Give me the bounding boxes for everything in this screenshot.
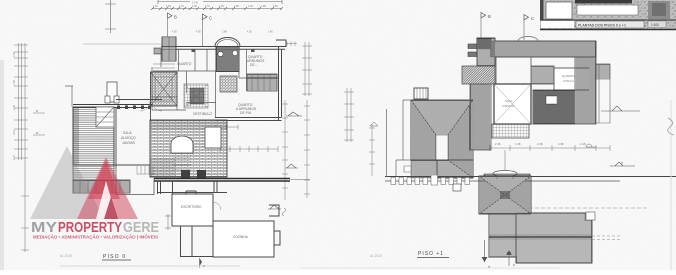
svg-text:1:100: 1:100 xyxy=(651,23,659,27)
svg-text:d: d xyxy=(621,161,623,165)
svg-text:3.50x4.0: 3.50x4.0 xyxy=(563,79,574,83)
svg-text:B: B xyxy=(36,109,38,113)
svg-text:1.80: 1.80 xyxy=(12,79,16,85)
svg-text:2.48: 2.48 xyxy=(580,142,586,146)
svg-text:B: B xyxy=(36,131,38,135)
svg-text:2.98: 2.98 xyxy=(234,5,239,8)
svg-text:PROPERTY: PROPERTY xyxy=(58,219,122,236)
svg-text:B: B xyxy=(488,14,491,19)
svg-text:MEDIAÇÃO • ADMINISTRAÇÃO • VAL: MEDIAÇÃO • ADMINISTRAÇÃO • VALORIZAÇÃO |… xyxy=(33,235,158,240)
svg-text:1.35: 1.35 xyxy=(273,5,278,8)
svg-text:QUARTO: QUARTO xyxy=(562,74,575,78)
svg-text:4.50x6.00: 4.50x6.00 xyxy=(502,104,515,108)
svg-text:VESTIBULO: VESTIBULO xyxy=(193,112,212,116)
svg-text:1.35: 1.35 xyxy=(166,5,171,8)
svg-text:4.30: 4.30 xyxy=(247,31,252,34)
svg-text:4.50: 4.50 xyxy=(172,31,177,34)
svg-text:2.95: 2.95 xyxy=(12,51,16,57)
svg-text:COZINHA: COZINHA xyxy=(233,235,249,239)
svg-text:2.98: 2.98 xyxy=(222,31,227,34)
svg-text:1.70: 1.70 xyxy=(205,5,210,8)
svg-text:C: C xyxy=(209,16,212,21)
svg-text:1.35: 1.35 xyxy=(192,5,197,8)
svg-text:4.50: 4.50 xyxy=(196,31,201,34)
svg-text:PISO 0: PISO 0 xyxy=(103,254,126,260)
svg-text:B: B xyxy=(174,15,177,20)
svg-text:ALMOÇO: ALMOÇO xyxy=(121,136,136,140)
svg-text:AL 2015: AL 2015 xyxy=(60,254,72,258)
svg-text:QUARTO: QUARTO xyxy=(177,62,192,66)
svg-text:2.98: 2.98 xyxy=(558,142,564,146)
svg-text:ESCRITORIO: ESCRITORIO xyxy=(181,205,202,209)
svg-text:1.35: 1.35 xyxy=(219,5,224,8)
svg-text:DE…: DE… xyxy=(250,63,258,67)
svg-text:DE PIA: DE PIA xyxy=(240,111,252,115)
svg-text:1.70: 1.70 xyxy=(179,5,184,8)
svg-text:2.70: 2.70 xyxy=(12,154,16,160)
svg-text:AL 2015: AL 2015 xyxy=(370,254,382,258)
svg-text:2.38: 2.38 xyxy=(495,142,501,146)
svg-text:MY: MY xyxy=(31,219,57,236)
svg-text:1.98: 1.98 xyxy=(261,5,266,8)
svg-text:PLANTAS DOS PISOS 0 e +1: PLANTAS DOS PISOS 0 e +1 xyxy=(578,24,626,28)
svg-text:SALA: SALA xyxy=(123,131,132,135)
svg-text:SALA: SALA xyxy=(505,99,513,103)
svg-text:1.40: 1.40 xyxy=(153,5,158,8)
svg-text:2.38: 2.38 xyxy=(537,142,543,146)
svg-text:4.50x2: 4.50x2 xyxy=(184,104,192,107)
svg-text:1.40: 1.40 xyxy=(268,31,273,34)
svg-text:JANTAR: JANTAR xyxy=(122,141,135,145)
svg-text:1.98: 1.98 xyxy=(515,142,521,146)
svg-text:2.45: 2.45 xyxy=(12,104,16,110)
svg-text:GERE: GERE xyxy=(123,219,159,236)
svg-text:c: c xyxy=(513,263,515,267)
svg-text:PISO +1: PISO +1 xyxy=(418,251,444,257)
svg-text:1.30: 1.30 xyxy=(248,5,253,8)
svg-text:C: C xyxy=(531,16,534,21)
svg-text:3.10: 3.10 xyxy=(12,129,16,135)
